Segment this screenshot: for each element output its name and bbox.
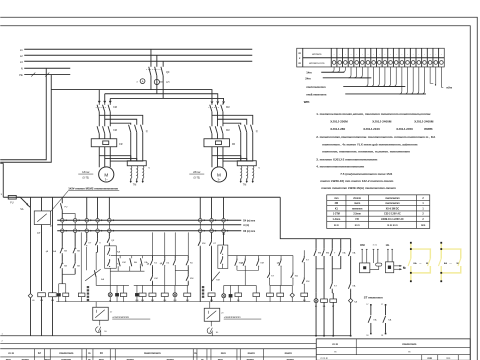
wire tap M1 ph3 <box>109 98 111 101</box>
wire drop 110 <box>109 285 111 292</box>
wire col 81 <box>80 232 82 293</box>
svg-text:mwmmwmm: mwmmwmm <box>385 202 399 205</box>
table right info <box>316 339 470 360</box>
terminal XT2:1b <box>60 229 64 233</box>
svg-text:KM: KM <box>154 278 157 280</box>
wire sub link b <box>332 268 341 270</box>
fuse FU1 <box>8 195 16 199</box>
wire motor lead 1 (M1) <box>98 147 100 168</box>
contact sub3b <box>331 281 333 283</box>
contactor KM2 pole 2 (M2) <box>215 126 217 134</box>
wire bottom rail <box>0 335 350 337</box>
wire KM mini aux <box>372 249 374 263</box>
svg-text:FR: FR <box>232 143 235 146</box>
contact col304 KT <box>303 250 305 256</box>
terminal XT:3 <box>347 48 349 67</box>
wire mid link 270 <box>175 269 188 271</box>
terminal XT:7 <box>370 48 372 67</box>
wire col 109.1 <box>108 197 110 218</box>
wire rail drop x30 <box>29 197 31 293</box>
wire rm bar 255 <box>228 255 293 257</box>
svg-text:1. mwmmnemwm:mnwm,wmwm, mwnmmm: 1. mwmmnemwm:mnwm,wmwm, mwnmmm mmwnmmm m… <box>316 112 431 116</box>
ammeter PA <box>140 79 145 84</box>
svg-text:m m m m: m m m m <box>387 224 398 227</box>
svg-text:17: 17 <box>381 304 383 306</box>
svg-text:mwmmwmm: mwmmwmm <box>385 197 399 200</box>
svg-text:TM: TM <box>243 183 246 186</box>
svg-text:mwnm LW39-16) mm mwnm 132: mwnm LW39-16) mm mwnm 132-2 mwnmm-mwnm <box>320 179 393 183</box>
wire from XT:15 <box>410 67 422 94</box>
wire XT2:2 inter-row <box>74 222 76 229</box>
wire PE drop <box>0 75 51 163</box>
terminal XT2:5a <box>108 218 112 222</box>
wire col200 contact <box>199 239 201 241</box>
wire from XT:7 <box>365 67 396 87</box>
wire gather line 1 <box>321 71 344 73</box>
contactor KM main pole 3 (M2) <box>222 103 224 105</box>
yellow highlighted contact group at 441 <box>440 243 442 259</box>
svg-text:mwmmnwm , 4s mwnm YLX mwm g: mwmmnwm , 4s mwnm YLX mwm gab mwnmwmmnm,… <box>322 142 418 146</box>
svg-text:KM: KM <box>113 129 117 132</box>
contactor KM2 pole 3 (M2) <box>221 126 223 134</box>
svg-text:m m: m m <box>373 244 377 246</box>
svg-text:2M: 2M <box>335 202 338 205</box>
breaker QF link <box>146 69 161 71</box>
wire XT2:3 inter-row <box>86 222 88 229</box>
svg-text:m m: m m <box>355 224 360 227</box>
contact rm KM4 <box>280 256 282 259</box>
terminal XT:4 <box>353 48 355 67</box>
relay group box K6 <box>105 246 117 268</box>
svg-text:2mmm: 2mmm <box>353 197 361 200</box>
contacts mid lower <box>151 274 153 276</box>
wire XT2:7 inter-row <box>211 222 213 229</box>
node L2 bus <box>24 54 252 56</box>
coil KA1 <box>38 293 46 297</box>
terminal XT:2 <box>342 48 344 67</box>
svg-text:N: N <box>403 266 405 270</box>
wire XT2:6 inter-row <box>199 222 201 229</box>
svg-text:KM: KM <box>226 106 230 109</box>
contact K8 pair <box>139 264 141 269</box>
wire diag KA <box>85 269 101 281</box>
breaker QF pole 2 <box>156 55 158 67</box>
wire motor lead 2 (M2) <box>216 147 218 168</box>
wire col 200 <box>199 197 201 218</box>
node row D6 <box>57 230 241 232</box>
svg-text:FR: FR <box>119 143 122 146</box>
yellow wire top bracket <box>441 249 461 258</box>
wire XT2:8 inter-row <box>223 222 225 229</box>
coil C1 <box>63 293 69 296</box>
svg-text:LW39-16 m 220V AC: LW39-16 m 220V AC <box>381 218 404 221</box>
svg-text:12: 12 <box>38 351 42 355</box>
lamp diamond rm <box>291 285 293 293</box>
node row D4 <box>57 219 241 221</box>
wire bottom margin line <box>0 343 316 345</box>
svg-text:KM: KM <box>318 253 321 255</box>
svg-text:ST mwmmmm: ST mwmmmm <box>364 296 383 300</box>
coil at 174.7 <box>174 285 176 293</box>
wire col 211 <box>211 197 213 218</box>
coil sub KA5 <box>323 293 325 299</box>
svg-text:mwmmnm, mwmwnmm. mnmwmm,: mwmmnm, mwmwnmm. mnmwmm, m,mwnm. mmnwmmw… <box>322 150 410 154</box>
contactor KM link (M1) <box>96 106 107 108</box>
button SB3 <box>74 232 76 246</box>
contact KM hang 3 <box>141 256 143 259</box>
wire rm group bar <box>270 284 292 286</box>
svg-text:mwI:mwmnmm: mwI:mwmnmm <box>306 85 326 89</box>
contactor Q pole 3 (Q2) <box>141 125 143 133</box>
wire mid bottom bar <box>56 301 310 303</box>
contact FU2 on rail <box>61 197 63 203</box>
contactor Q pole 3 (Q4) <box>251 125 253 133</box>
relay box KT1 <box>34 211 50 225</box>
coil dark K7 <box>115 293 119 296</box>
svg-text:mm: mm <box>334 197 338 200</box>
button SB2 <box>61 254 63 261</box>
svg-text:PE: PE <box>19 73 23 77</box>
svg-text:wmwm: wmwm <box>312 52 322 56</box>
wire N drop <box>0 68 46 160</box>
wire col 74.9 from rail <box>62 214 75 219</box>
coil FV <box>237 285 239 293</box>
terminal XT2:2b <box>73 229 77 233</box>
terminal XT2:5b <box>108 229 112 233</box>
svg-text:Q: Q <box>146 130 148 133</box>
lamp sub HL3 <box>315 293 317 299</box>
wire HL mini leads <box>387 249 389 262</box>
svg-text:XX-9 3M DC: XX-9 3M DC <box>386 207 400 210</box>
contact sub5 <box>350 248 352 250</box>
svg-text:m m: m m <box>332 342 338 346</box>
coil rm4 <box>301 293 308 296</box>
svg-text:KA: KA <box>413 262 417 265</box>
svg-text:KM: KM <box>190 278 193 280</box>
svg-text:D6 (m) mm: D6 (m) mm <box>243 231 255 233</box>
wire from XT:18-20 to bus link <box>430 67 433 83</box>
svg-text:Q: Q <box>256 130 258 133</box>
coil K11 <box>255 285 257 293</box>
wire mid top bar <box>134 284 189 286</box>
svg-text:(5-75): (5-75) <box>83 176 90 179</box>
terminal XT:20 <box>440 61 444 65</box>
terminal XT:17 <box>426 48 428 67</box>
node dots <box>410 242 412 244</box>
svg-text:XJ01J-250M: XJ01J-250M <box>330 119 348 123</box>
svg-text:KM: KM <box>360 243 365 247</box>
wire rm lower bar <box>237 269 259 271</box>
terminal XT2:8b <box>222 229 226 233</box>
switch SA <box>16 196 20 198</box>
yellow contact right <box>428 259 431 267</box>
button SB4 <box>74 254 76 261</box>
wire from XT:11 <box>388 67 404 87</box>
terminal XT2:4b <box>96 229 100 233</box>
svg-text:3~: 3~ <box>217 178 220 182</box>
yellow highlighted contact group at 410.6 <box>410 243 412 259</box>
transformer CT LH <box>154 79 159 84</box>
contactor KM main pole 3 (M1) <box>109 103 111 105</box>
coil at 164.5 <box>164 285 166 293</box>
coil K3 dark <box>57 293 61 296</box>
svg-text:A: A <box>142 79 144 83</box>
svg-text:KM: KM <box>326 253 329 255</box>
svg-text:2.5mm: 2.5mm <box>353 213 361 216</box>
svg-text:mwm: mwm <box>285 351 293 355</box>
contacts mid upper <box>151 258 153 260</box>
wire jogs to star contactor (M2) <box>212 115 253 124</box>
sensor box SL1 <box>93 307 109 320</box>
contact ST KA2 <box>385 304 387 306</box>
svg-text:mwmmwm: mwmmwm <box>59 351 74 355</box>
contact sub4 <box>340 248 342 250</box>
contact sub3 <box>331 248 333 250</box>
node PE bus <box>24 74 70 76</box>
wire from XT:8 <box>371 67 398 87</box>
wire bus 95-128 <box>96 284 129 286</box>
contact KM hang 2 <box>131 256 133 259</box>
svg-text:2#mw: 2#mw <box>193 170 200 174</box>
node N bus <box>24 67 70 69</box>
wire from XT:3 <box>342 67 345 72</box>
arrows HL mini <box>394 265 401 267</box>
contactor KM2 pole 2 (M1) <box>103 126 105 134</box>
wire from XT:9 <box>376 67 400 87</box>
breaker QF pole 1 <box>150 49 152 67</box>
button SB1 <box>61 232 63 246</box>
coil row rm3 <box>279 285 281 293</box>
svg-text:KM: KM <box>260 263 263 265</box>
terminal XT2:1a <box>60 218 64 222</box>
svg-text:XJ01J-2400M: XJ01J-2400M <box>414 119 434 123</box>
vertical text sign power <box>87 286 89 288</box>
contact K5 <box>97 239 99 241</box>
wire from XT:12 <box>393 67 405 87</box>
float switch SL1 <box>99 320 101 325</box>
lamp HL0 <box>28 294 32 298</box>
wire from XT:14 <box>405 67 421 94</box>
contactor KM link (M2) <box>208 106 219 108</box>
wire subladder drops <box>315 239 317 249</box>
table BOM <box>327 195 430 229</box>
wire gather line 2 <box>323 77 372 79</box>
terminal XT2:2a <box>73 218 77 222</box>
contact rm KT5 <box>268 256 270 273</box>
wire diag 2 <box>212 272 220 282</box>
svg-text:XJ01J-2400M: XJ01J-2400M <box>372 119 392 123</box>
svg-text:1-4mm: 1-4mm <box>332 218 340 221</box>
terminal XT2:6b <box>198 229 202 233</box>
contactor Q pole 2 (Q4) <box>245 125 247 133</box>
svg-text:m: m <box>334 350 336 353</box>
terminal XT:9 <box>381 48 383 67</box>
node arrows M2 <box>211 101 214 104</box>
wire feed bus A <box>51 90 212 102</box>
breaker QF pole 3 <box>162 61 164 67</box>
svg-text:...: ... <box>449 260 452 264</box>
svg-text:1#mw: 1#mw <box>82 170 89 174</box>
svg-text:mwm: mwm <box>354 202 360 205</box>
svg-text:2. mmwnmmmm,mwmwnmmmmw. mwnmmm: 2. mmwnmmmm,mwmwnmmmmw. mwnmmmwnmm. mmwn… <box>316 135 436 139</box>
contactor KM2 pole 1 (M2) <box>210 126 212 134</box>
svg-text:7.5 (mw)mwnmwmmwnm mmw 15/4: 7.5 (mw)mwnmwmmwnm mmw 15/4 <box>340 172 392 176</box>
svg-text:FU: FU <box>10 201 13 204</box>
box HL mini <box>385 262 393 273</box>
svg-text:KM: KM <box>202 243 205 245</box>
wire motor lead 1 (M2) <box>211 147 213 168</box>
wire XT2:1 inter-row <box>61 222 63 229</box>
coil KM8 <box>208 293 215 297</box>
node L3 bus <box>24 60 252 62</box>
contact col304 KM <box>303 277 305 279</box>
wire from XT:4 <box>348 67 368 78</box>
wire drop 123.3 <box>123 285 125 293</box>
wire from XT:2 <box>337 67 343 72</box>
box KM mini <box>359 263 369 273</box>
svg-text:KM: KM <box>303 300 306 302</box>
contactor KM main pole 1 (M1) <box>98 103 100 105</box>
contact KM hang 1 <box>119 256 121 259</box>
contact sub1 <box>315 248 317 250</box>
svg-text:KA: KA <box>444 262 448 265</box>
wire gather line 3 <box>343 85 405 87</box>
wire motor lead 2 (M1) <box>104 147 106 168</box>
wire left feeder to control <box>2 163 4 197</box>
float switch SL2 <box>210 321 212 326</box>
coil KA2 <box>49 293 57 297</box>
wire tap M1 ph1 <box>98 90 100 102</box>
wire KT1 to coil <box>41 225 43 291</box>
svg-text:...: ... <box>419 260 422 264</box>
terminal XT2:6a <box>198 218 202 222</box>
coil at 136.7 <box>136 285 138 293</box>
coil at 152.2 <box>151 285 153 293</box>
svg-text:mwm: mwm <box>248 351 256 355</box>
wire motor lead 3 (M2) <box>222 147 224 168</box>
svg-text:XJ01J-2100: XJ01J-2100 <box>363 127 380 131</box>
contactor Q pole 1 (Q2) <box>129 125 131 133</box>
svg-text:wmwm.mm: wmwm.mm <box>309 61 325 65</box>
wire mid col tops <box>151 232 153 255</box>
wire motor lead 3 (M1) <box>109 147 111 168</box>
svg-text:18: 18 <box>366 335 368 337</box>
wire subladder feed <box>280 197 350 238</box>
sensor box SL2 <box>204 308 220 321</box>
relay group box K9 <box>223 232 225 245</box>
terminal XT2:3a <box>85 218 89 222</box>
yellow wire bottom bracket <box>441 266 461 273</box>
svg-text:10: 10 <box>100 351 104 355</box>
svg-text:M: M <box>104 172 108 177</box>
wire tap M1 ph2 <box>104 94 106 102</box>
node row A <box>57 224 241 226</box>
svg-text:1#2# mwmm M1M2 mwmmwmmwmm: 1#2# mwmm M1M2 mwmmwmmwmm <box>68 187 118 191</box>
svg-text:mwmm mmwmmm LW39-16(m) mwm: mwmm mmwmmm LW39-16(m) mwmmwmmm-mmwm <box>321 186 396 190</box>
wire control rail <box>3 196 280 198</box>
terminal XT:14 <box>409 48 411 67</box>
terminal XT:15 <box>415 48 417 67</box>
yellow contact right <box>458 259 461 267</box>
svg-text:mm: mm <box>221 351 226 355</box>
svg-text:KM: KM <box>113 106 117 109</box>
svg-text:mXm: mXm <box>446 87 452 90</box>
svg-text:KT: KT <box>37 232 41 235</box>
svg-text:m m: m m <box>334 224 339 227</box>
contact ST KA1 <box>370 304 372 306</box>
wire col 223 <box>223 197 225 218</box>
lamp HL2 <box>223 285 225 293</box>
contact sub5b <box>350 281 352 283</box>
svg-text:mwmmm: mwmmm <box>352 207 362 210</box>
wire feed bus B <box>105 94 218 102</box>
wire jogs to star contactor (M1) <box>99 115 143 124</box>
svg-text:4. mnmwmmwnmmwwnmmmwm: 4. mnmwmmwnmmwwnmmmwm <box>316 165 364 169</box>
svg-text:LH: LH <box>166 81 169 84</box>
wire transformer links (M2) <box>212 156 241 161</box>
wire gather line 4 <box>345 93 426 95</box>
contactor KM2 pole 3 (M1) <box>108 126 110 134</box>
coil row rm2 <box>269 285 271 293</box>
wire from XT:16 <box>416 67 424 94</box>
coil C2 <box>120 293 126 296</box>
wire col211 contact <box>211 239 213 241</box>
wire feed bus C <box>110 98 223 101</box>
yellow contact left <box>408 259 411 267</box>
svg-text:mwmmwm: mwmmwm <box>402 342 417 346</box>
coil sub KT5 <box>332 293 334 299</box>
contact rm KM3 <box>258 256 260 259</box>
terminal XT:8 <box>375 48 377 67</box>
wire SB merge <box>62 273 75 275</box>
svg-text:m: m <box>408 350 410 353</box>
contact rm KA6 <box>292 256 294 273</box>
wire bar y271 <box>110 270 144 272</box>
contactor KM main pole 2 (M2) <box>216 103 218 105</box>
svg-text:QF: QF <box>166 71 170 74</box>
wire from XT:6 <box>359 67 371 78</box>
wire col 97.3 <box>97 197 99 218</box>
terminal XT:11 <box>392 48 394 67</box>
terminal XT:12 <box>398 48 400 67</box>
contact rm KA1 <box>236 256 238 259</box>
table title block <box>0 348 316 350</box>
wire sub link a <box>316 268 324 270</box>
wire right-mid top bar <box>224 284 257 286</box>
yellow wire top bracket <box>411 249 431 258</box>
svg-text:HL: HL <box>315 306 317 308</box>
svg-text:KM: KM <box>226 129 230 132</box>
svg-text:KM: KM <box>122 262 125 264</box>
contactor KM main pole 2 (M1) <box>104 103 106 105</box>
yellow wire bottom bracket <box>411 266 431 273</box>
wire bar y255 <box>111 255 189 257</box>
contact KT2 <box>86 239 88 241</box>
terminal XT:19 <box>438 48 440 67</box>
vertical text sign 2 <box>202 286 204 288</box>
svg-text:+mwmmwmmm: +mwmmwmmm <box>112 316 129 319</box>
svg-text:D4 (m) mm: D4 (m) mm <box>243 219 255 222</box>
svg-text:2#m: 2#m <box>305 76 311 80</box>
contact QF aux <box>108 232 110 236</box>
terminal strip XT frame <box>297 48 445 67</box>
wire col 86.5 <box>86 197 88 218</box>
wire XT2:4 inter-row <box>97 222 99 229</box>
terminal XT2:7b <box>210 229 214 233</box>
terminal XT2:7a <box>210 218 214 222</box>
terminal XT:5 <box>359 48 361 67</box>
svg-text:3~: 3~ <box>105 178 108 182</box>
